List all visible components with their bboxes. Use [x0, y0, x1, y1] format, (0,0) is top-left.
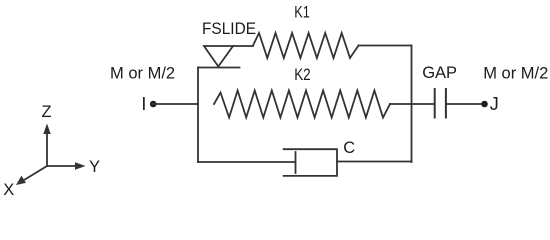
node J	[481, 101, 488, 108]
svg-text:K2: K2	[294, 66, 311, 84]
svg-text:FSLIDE: FSLIDE	[202, 20, 256, 38]
triad Z axis	[46, 132, 48, 166]
triad X axis	[24, 166, 47, 180]
wire right vertical rail	[411, 46, 413, 163]
wire bottom left to damper rod	[198, 161, 296, 163]
triad Z arrowhead	[43, 124, 50, 135]
GAP plate left	[434, 89, 436, 118]
svg-text:I: I	[141, 94, 146, 114]
svg-text:K1: K1	[294, 4, 310, 22]
wire damper to right rail	[337, 161, 412, 163]
GAP plate right	[445, 89, 447, 118]
FSLIDE slider triangle	[204, 46, 233, 67]
svg-text:J: J	[490, 94, 499, 114]
triad Y arrowhead	[75, 162, 86, 169]
svg-text:M or M/2: M or M/2	[110, 65, 175, 83]
svg-text:M or M/2: M or M/2	[483, 65, 548, 83]
wire spring K1 to right rail	[359, 45, 412, 47]
svg-text:C: C	[343, 139, 355, 157]
svg-text:Y: Y	[89, 158, 100, 176]
svg-text:GAP: GAP	[422, 64, 457, 82]
triad X arrowhead	[16, 176, 26, 185]
wire left vertical rail	[197, 68, 199, 163]
spring K2 zigzag	[214, 91, 390, 118]
spring K1 zigzag	[253, 33, 359, 58]
node I	[150, 101, 157, 108]
svg-text:Z: Z	[41, 103, 51, 121]
wire triangle to spring K1	[233, 45, 253, 47]
damper C cylinder	[284, 149, 337, 176]
FSLIDE friction surface line	[198, 67, 240, 69]
svg-text:X: X	[3, 181, 14, 199]
triad Y axis	[47, 165, 77, 167]
wire GAP to node J	[446, 103, 484, 105]
wire I to left rail	[153, 103, 198, 105]
damper C piston plate	[295, 152, 297, 173]
wire spring K2 to GAP	[390, 103, 435, 105]
